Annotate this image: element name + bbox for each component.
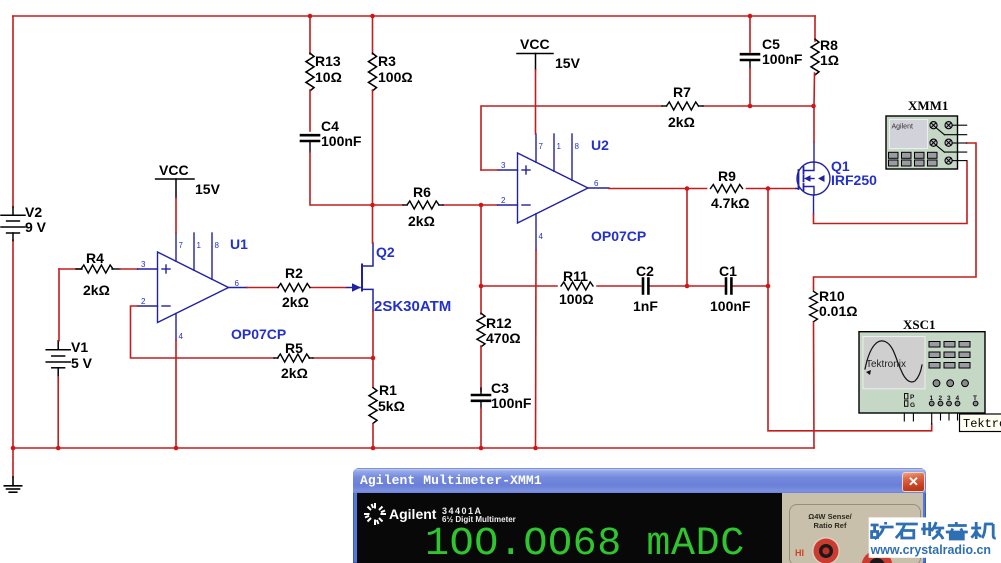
- wire left column V2: [12, 16, 14, 207]
- wire XMM1 to R10: [814, 143, 977, 290]
- svg-text:Q2: Q2: [376, 244, 395, 260]
- shou: [921, 522, 944, 539]
- svg-text:R8: R8: [820, 37, 838, 53]
- wire U2 inverting node down: [480, 205, 482, 286]
- svg-text:R7: R7: [673, 84, 691, 100]
- watermark crystalradio: [864, 511, 1001, 563]
- svg-text:7: 7: [539, 142, 544, 151]
- wire top rail: [13, 15, 815, 17]
- svg-text:R10: R10: [819, 288, 845, 304]
- svg-text:R9: R9: [718, 168, 736, 184]
- ji: [971, 522, 996, 539]
- svg-text:15V: 15V: [195, 181, 221, 197]
- svg-text:Tektron: Tektron: [963, 417, 1001, 431]
- wire C4 bottom: [310, 152, 373, 205]
- resistor R8: [811, 16, 839, 106]
- svg-text:Agilent: Agilent: [389, 506, 437, 522]
- wire C3 bottom: [480, 408, 482, 448]
- resistor R1: [369, 382, 405, 423]
- yin: [946, 522, 968, 539]
- shi: [896, 524, 918, 538]
- wire R3 bottom: [372, 90, 374, 205]
- svg-text:8: 8: [215, 241, 220, 250]
- wire U1 output: [247, 287, 346, 289]
- svg-text:2kΩ: 2kΩ: [668, 114, 695, 130]
- svg-text:9 V: 9 V: [25, 219, 47, 235]
- svg-text:1nF: 1nF: [633, 298, 658, 314]
- wire R10 bottom to rail: [813, 323, 816, 449]
- svg-text:R4: R4: [86, 250, 104, 266]
- svg-text:100nF: 100nF: [321, 133, 362, 149]
- capacitor C5: [741, 16, 803, 106]
- svg-text:7: 7: [179, 241, 184, 250]
- svg-text:1: 1: [197, 241, 202, 250]
- resistor R4: [59, 250, 138, 298]
- wire U2 output row y188: [609, 188, 796, 190]
- resistor R7: [662, 84, 703, 130]
- wire R7 feedback loop: [481, 106, 814, 170]
- resistor R6: [403, 184, 443, 229]
- resistor R3: [369, 16, 413, 91]
- title bar: [353, 468, 926, 493]
- instrument XSC1: [859, 317, 985, 424]
- svg-text:3: 3: [501, 161, 506, 170]
- capacitor C2: [633, 263, 658, 314]
- VCC supply U1: [156, 162, 221, 233]
- window Agilent Multimeter-XMM1: [353, 468, 926, 563]
- battery V1: [46, 341, 70, 377]
- svg-text:6: 6: [235, 279, 240, 288]
- Agilent logo: [361, 500, 481, 530]
- wire Q2 drain: [372, 205, 374, 243]
- svg-text:VCC: VCC: [159, 162, 189, 178]
- svg-text:100nF: 100nF: [491, 395, 532, 411]
- junction node dots: [11, 14, 816, 451]
- svg-text:2SK30ATM: 2SK30ATM: [374, 298, 451, 315]
- svg-text:R3: R3: [378, 53, 396, 69]
- wire Q1 source to XMM1: [814, 161, 968, 224]
- svg-text:470Ω: 470Ω: [486, 330, 521, 346]
- battery V2: [1, 207, 25, 241]
- svg-text:XMM1: XMM1: [908, 98, 948, 113]
- capacitor C4: [301, 118, 362, 152]
- resistor R12: [477, 286, 521, 347]
- svg-text:2: 2: [141, 297, 146, 306]
- svg-text:U2: U2: [591, 137, 609, 153]
- svg-text:2kΩ: 2kΩ: [281, 365, 308, 381]
- display black panel: [357, 493, 782, 563]
- svg-text:C5: C5: [762, 36, 780, 52]
- svg-text:100nF: 100nF: [762, 51, 803, 67]
- ground: [4, 477, 21, 492]
- wire R13 to C4: [309, 90, 311, 131]
- svg-text:100Ω: 100Ω: [559, 291, 594, 307]
- resistor R13: [306, 16, 342, 91]
- svg-text:2kΩ: 2kΩ: [282, 294, 309, 310]
- svg-text:C1: C1: [719, 263, 737, 279]
- op-amp U1: [138, 233, 247, 340]
- svg-text:VCC: VCC: [520, 36, 550, 52]
- svg-text:100Ω: 100Ω: [378, 69, 413, 85]
- svg-text:5 V: 5 V: [71, 355, 93, 371]
- svg-text:C3: C3: [491, 380, 509, 396]
- capacitor C3: [472, 380, 532, 411]
- wire U1 pin2 feedback: [131, 306, 374, 358]
- wire U1 pin4: [175, 340, 177, 448]
- svg-text:5kΩ: 5kΩ: [378, 398, 405, 414]
- svg-text:P: P: [910, 394, 915, 401]
- svg-text:6: 6: [594, 179, 599, 188]
- wire inverting line y205: [373, 204, 498, 206]
- wire U2 pin4: [535, 250, 538, 448]
- kuang: [871, 522, 894, 539]
- svg-text:R12: R12: [486, 315, 512, 331]
- svg-text:3: 3: [141, 260, 146, 269]
- svg-text:IRF250: IRF250: [831, 172, 877, 188]
- svg-text:4.7kΩ: 4.7kΩ: [711, 195, 749, 211]
- terminal 2: [858, 550, 898, 563]
- wire node to scope vertical x768: [768, 189, 932, 431]
- svg-text:XSC1: XSC1: [903, 317, 936, 332]
- transistor Q1: [796, 142, 830, 214]
- svg-text:2: 2: [501, 196, 506, 205]
- terminal HI: [809, 536, 845, 563]
- wire R12 to C3: [480, 346, 482, 391]
- svg-text:0.01Ω: 0.01Ω: [819, 303, 857, 319]
- instrument XMM1: [886, 98, 967, 169]
- svg-text:R5: R5: [285, 340, 303, 356]
- svg-text:4: 4: [179, 332, 184, 341]
- wire V1 column: [57, 269, 60, 448]
- svg-text:15V: 15V: [555, 55, 581, 71]
- svg-text:10Ω: 10Ω: [315, 69, 342, 85]
- wire bottom rail: [13, 447, 814, 449]
- svg-text:R6: R6: [413, 184, 431, 200]
- svg-text:R13: R13: [315, 53, 341, 69]
- wire R1 bottom: [372, 424, 374, 448]
- svg-text:Tektronix: Tektronix: [866, 359, 906, 370]
- wire Q2 source: [372, 311, 374, 387]
- svg-text:1: 1: [557, 142, 562, 151]
- transistor Q2: [347, 243, 373, 311]
- svg-text:OP07CP: OP07CP: [231, 326, 286, 342]
- svg-text:100nF: 100nF: [710, 298, 751, 314]
- wire ground stem: [12, 448, 14, 477]
- svg-text:C2: C2: [636, 263, 654, 279]
- svg-text:4: 4: [539, 232, 544, 241]
- VCC supply U2: [517, 36, 581, 134]
- display reading: [425, 522, 745, 563]
- svg-text:2kΩ: 2kΩ: [83, 282, 110, 298]
- svg-text:www.crystalradio.cn: www.crystalradio.cn: [870, 543, 991, 557]
- tooltip Tektron: [960, 414, 1001, 432]
- meter front panel: [782, 493, 923, 563]
- svg-text:G: G: [910, 402, 915, 409]
- svg-text:C4: C4: [321, 118, 339, 134]
- resistor R2: [278, 265, 310, 310]
- svg-text:R11: R11: [563, 268, 588, 284]
- resistor R5: [274, 340, 313, 381]
- svg-text:R2: R2: [285, 265, 303, 281]
- svg-text:Agilent: Agilent: [892, 124, 913, 131]
- close button: [902, 472, 925, 492]
- op-amp U2: [498, 134, 609, 250]
- svg-text:V1: V1: [71, 339, 88, 355]
- svg-text:1Ω: 1Ω: [820, 52, 839, 68]
- capacitor C1: [710, 263, 751, 314]
- wire low-pass row y286: [481, 285, 768, 287]
- resistor R10: [810, 288, 858, 322]
- display model text: [442, 506, 483, 516]
- svg-text:U1: U1: [230, 236, 248, 252]
- wire C2-C1 to R9 vertical x687: [686, 189, 688, 287]
- svg-text:8: 8: [575, 142, 580, 151]
- svg-text:OP07CP: OP07CP: [591, 228, 646, 244]
- svg-text:V2: V2: [25, 204, 42, 220]
- resistor R11: [559, 268, 594, 307]
- wire R8 to Q1 drain: [813, 106, 815, 142]
- svg-text:R1: R1: [379, 382, 397, 398]
- svg-text:2kΩ: 2kΩ: [408, 213, 435, 229]
- resistor R9: [711, 168, 750, 211]
